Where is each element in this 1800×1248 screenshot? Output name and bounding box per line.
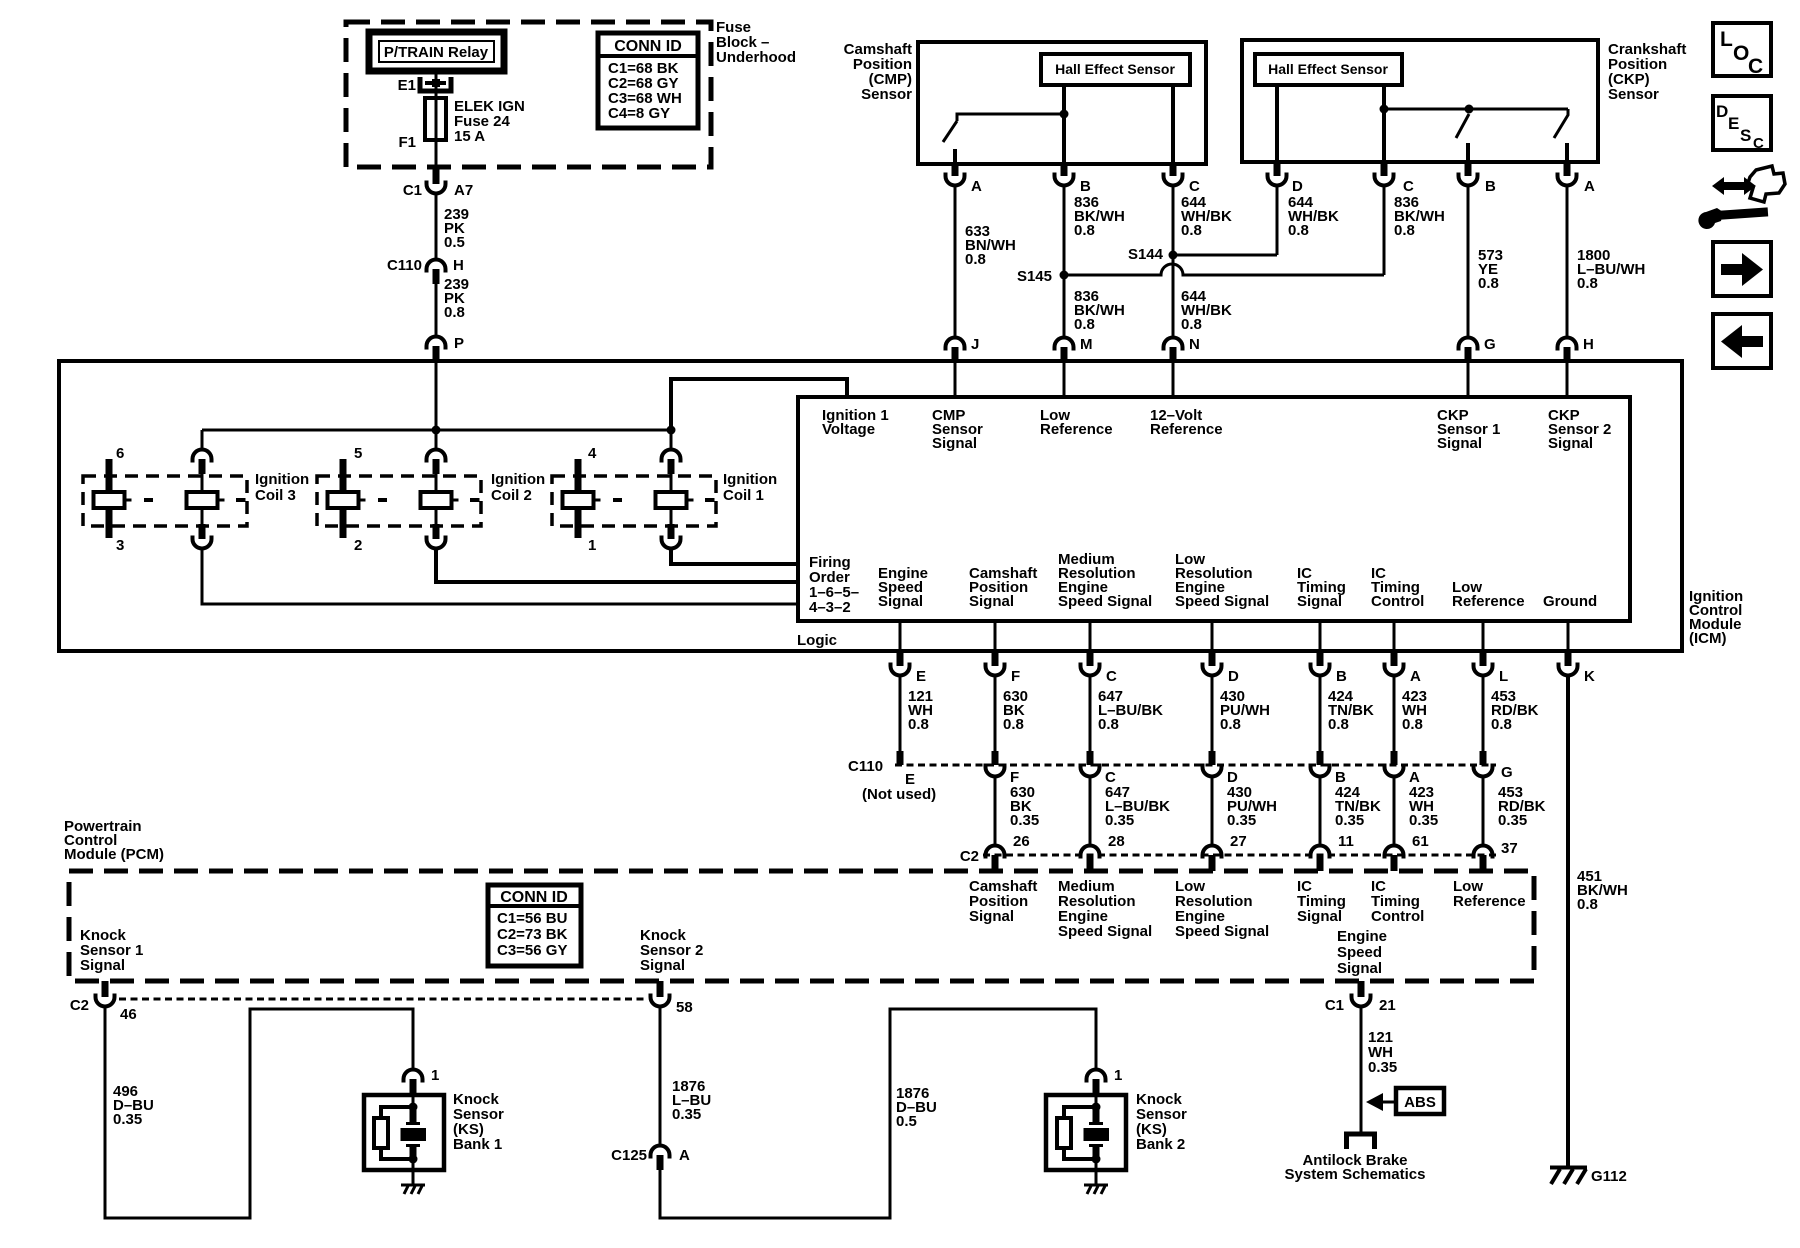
svg-text:G112: G112 [1591,1168,1627,1185]
svg-text:0.8: 0.8 [965,251,986,268]
off-page bracket [1347,1134,1375,1149]
antilock brake label [1285,1152,1426,1183]
ICM pin M [1055,336,1093,361]
svg-text:Speed Signal: Speed Signal [1175,923,1269,940]
svg-text:Coil 3: Coil 3 [255,487,296,504]
ICM pin F [986,651,1021,685]
svg-text:Voltage: Voltage [822,421,875,438]
C110 pin D [1203,751,1239,786]
ICM pin B [1311,651,1348,685]
svg-text:C2: C2 [70,997,89,1014]
svg-text:A: A [679,1147,690,1164]
svg-text:28: 28 [1108,833,1125,850]
wire 836 BK/WH 0.8 upper [1064,187,1125,275]
CKP pin D [1268,162,1304,195]
svg-text:E: E [916,668,926,685]
knock sensor KS bank 2 [1046,1095,1126,1184]
svg-text:Signal: Signal [80,957,125,974]
ICM pin G [1459,336,1496,361]
CMP pin A [946,164,983,195]
svg-text:F: F [1011,668,1020,685]
wire 644 WH/BK 0.8 lower [1173,255,1232,336]
svg-text:Bank 2: Bank 2 [1136,1136,1185,1153]
svg-text:A: A [1410,668,1421,685]
wire IC timing signal to pin B [1319,621,1322,651]
DESC icon box [1713,96,1771,152]
svg-text:0.5: 0.5 [896,1113,917,1130]
svg-text:0.8: 0.8 [1003,716,1024,733]
wire hall to pin B inside CMP [1062,85,1066,164]
svg-text:Reference: Reference [1150,421,1223,438]
svg-text:46: 46 [120,1006,137,1023]
internal bus CKP [1384,108,1568,111]
CMP sensor label [844,41,913,103]
svg-text:4: 4 [588,445,597,462]
connector C2 dashed line [960,848,1497,865]
ICM label [1689,588,1743,647]
svg-text:A: A [1584,178,1595,195]
svg-text:27: 27 [1230,833,1247,850]
C110 stub E [897,751,904,765]
ignition coil 3 [83,445,309,554]
wire 424 TN/BK 0.35 [1320,778,1381,850]
svg-text:C2: C2 [960,848,979,865]
svg-text:6: 6 [116,445,124,462]
ICM pin K [1559,651,1596,685]
svg-text:Hall Effect Sensor: Hall Effect Sensor [1055,61,1175,77]
wire to switch CMP [957,114,1064,121]
back arrow icon box [1713,314,1771,368]
svg-text:Signal: Signal [878,593,923,610]
svg-text:C4=8 GY: C4=8 GY [608,105,670,122]
svg-text:Module (PCM): Module (PCM) [64,846,164,863]
wire P to bus [435,361,438,448]
svg-text:Ignition: Ignition [723,471,777,488]
svg-text:Signal: Signal [1548,435,1593,452]
connector C2 pin 58 [651,981,693,1016]
svg-text:D: D [1292,178,1303,195]
wire 496 D-BU 0.35 [105,1008,413,1218]
svg-text:2: 2 [354,537,362,554]
svg-text:0.8: 0.8 [1402,716,1423,733]
knock sensor 1 label [453,1091,504,1153]
svg-text:C1=56 BU: C1=56 BU [497,910,567,927]
svg-text:0.8: 0.8 [1577,896,1598,913]
fuse holder clip [420,77,451,91]
ABS reference arrow [1366,1093,1396,1111]
svg-text:0.35: 0.35 [1335,812,1364,829]
wire 573 YE 0.8 [1468,187,1503,336]
svg-text:B: B [1336,668,1347,685]
ground knock sensor 1 [401,1184,425,1194]
svg-text:0.35: 0.35 [672,1106,701,1123]
wire 1800 L-BU/WH 0.8 [1567,187,1645,336]
wire relay to fuse [435,71,438,98]
svg-text:0.8: 0.8 [1328,716,1349,733]
svg-text:Sensor: Sensor [1608,86,1659,103]
svg-text:B: B [1485,178,1496,195]
svg-text:Signal: Signal [969,908,1014,925]
svg-text:O: O [1733,42,1749,65]
logic box [797,397,1630,649]
connector C110 dashed line [848,758,1496,803]
svg-text:N: N [1189,336,1200,353]
svg-text:58: 58 [676,999,693,1016]
wire 453 RD/BK 0.35 [1483,778,1546,857]
svg-text:0.8: 0.8 [1098,716,1119,733]
svg-text:K: K [1584,668,1595,685]
wire hall to pin C inside CKP [1382,85,1386,162]
svg-text:0.8: 0.8 [1074,222,1095,239]
svg-text:0.8: 0.8 [1394,222,1415,239]
connector C1 pin A7 [403,166,473,199]
wire CMP signal into logic [954,361,957,397]
svg-text:0.8: 0.8 [908,716,929,733]
svg-text:0.8: 0.8 [1074,316,1095,333]
wire ground to pin K [1567,621,1570,651]
C2 dashed link 46 to 58 [119,998,646,1001]
svg-text:Control: Control [1371,908,1424,925]
wire 644 WH/BK 0.8 CKP D [1277,187,1339,255]
hall effect sensor box (CMP) [1041,54,1190,85]
svg-text:Signal: Signal [969,593,1014,610]
wire 1876 L-BU 0.35 [660,1008,711,1144]
svg-text:0.8: 0.8 [1181,222,1202,239]
wire 12-volt reference into logic [1172,361,1175,397]
svg-text:F1: F1 [398,134,416,151]
svg-text:C: C [1106,668,1117,685]
wire 424 TN/BK 0.8 [1320,677,1374,751]
svg-text:E1: E1 [398,77,416,94]
svg-text:0.8: 0.8 [444,304,465,321]
wire bus to coil1 [670,430,673,448]
ground knock sensor 2 [1084,1184,1108,1194]
switch blade CKP 1 [1456,114,1469,162]
svg-text:Hall Effect Sensor: Hall Effect Sensor [1268,61,1388,77]
wire coil2 to logic [436,550,798,582]
wire hall to pin C inside CMP [1171,85,1175,164]
wire S145 to CKP pin C with hop [1064,264,1384,275]
CONN ID table (fuse block) [598,33,698,128]
PCM pin labels top [969,878,1526,940]
wire S144 to CKP pin D [1173,254,1277,257]
wire coil1 to logic [671,550,798,564]
svg-text:H: H [1583,336,1594,353]
CKP pin A [1558,162,1596,195]
hall effect sensor box (CKP) [1255,54,1402,85]
wire bus to coil3 [201,430,204,448]
wire riser to Ignition 1 Voltage [671,379,847,430]
svg-text:C: C [1403,178,1414,195]
ground G112 [1550,1168,1627,1186]
svg-text:Bank 1: Bank 1 [453,1136,502,1153]
wire coil3 to logic [202,550,798,604]
svg-text:0.8: 0.8 [1220,716,1241,733]
svg-text:0.35: 0.35 [1227,812,1256,829]
wire 423 WH 0.8 [1394,677,1427,751]
svg-text:0.35: 0.35 [1368,1059,1397,1076]
node junction CMP [1060,110,1069,119]
CKP sensor label [1608,41,1686,103]
svg-text:1: 1 [1114,1067,1122,1084]
wire hall to pin D inside CKP [1275,85,1279,162]
svg-text:0.8: 0.8 [1181,316,1202,333]
svg-text:0.8: 0.8 [1478,275,1499,292]
C2 pin 27 [1203,846,1222,872]
svg-text:Engine: Engine [1337,928,1387,945]
wire 633 BN/WH 0.8 [955,187,1016,336]
knock sensor KS bank 1 [364,1095,444,1184]
wire engine speed signal to pin E [899,621,902,651]
svg-text:Signal: Signal [1337,960,1382,977]
svg-text:CONN ID: CONN ID [500,889,568,906]
C2 pin 28 [1081,846,1100,872]
forward arrow icon box [1713,242,1771,296]
C2 pin 61 [1385,846,1404,872]
splice S144 [1128,246,1178,263]
ABS box [1396,1088,1444,1114]
svg-text:C125: C125 [611,1147,647,1164]
PCM dashed box [69,871,1534,981]
svg-text:D: D [1716,102,1728,121]
fuse F1 ELEK IGN Fuse 24 15A [398,77,525,166]
svg-text:J: J [971,336,979,353]
wire 630 BK 0.8 [995,677,1028,751]
svg-text:(ICM): (ICM) [1689,630,1727,647]
wiring repair icon (arrows and wrench) [1698,166,1785,229]
fuse block label [716,19,796,66]
wire 630 BK 0.35 [995,778,1039,850]
knock sensor 1 pin 1 [404,1067,440,1095]
svg-text:D: D [1228,668,1239,685]
svg-text:C110: C110 [848,758,883,775]
C110 pin B [1311,751,1347,786]
CMP sensor box [918,42,1206,164]
C110 pin C [1081,751,1117,786]
wire 647 L-BU/BK 0.8 [1090,677,1163,751]
wire 239 PK 0.5 [436,195,469,258]
CKP pin C [1375,162,1415,195]
wire 423 WH 0.35 [1394,778,1438,850]
fuse block underhood dashed box [346,22,711,167]
svg-text:3: 3 [116,537,124,554]
svg-text:C: C [1189,178,1200,195]
wire 451 BK/WH 0.8 to ground [1568,677,1628,1166]
ICM pin A [1385,651,1422,685]
knock sensor 2 signal label [640,927,703,974]
svg-text:Signal: Signal [1297,593,1342,610]
ICM pin J [946,336,980,361]
svg-text:M: M [1080,336,1093,353]
splice S145 [1017,268,1069,285]
svg-text:A: A [971,178,982,195]
connector C2 pin 46 [70,981,137,1023]
logic box bottom labels [809,551,1597,616]
svg-text:Underhood: Underhood [716,49,796,66]
CKP pin B [1459,162,1497,195]
svg-text:Logic: Logic [797,632,837,649]
svg-text:Reference: Reference [1040,421,1113,438]
svg-text:0.35: 0.35 [113,1111,142,1128]
svg-text:B: B [1080,178,1091,195]
LOC icon box [1713,23,1771,78]
svg-text:0.8: 0.8 [1491,716,1512,733]
connector pin P into ICM [427,335,465,361]
CKP sensor box [1242,40,1598,162]
svg-text:S144: S144 [1128,246,1164,263]
C2 pin 11 [1311,846,1330,872]
svg-text:61: 61 [1412,833,1429,850]
knock sensor 1 signal label [80,927,143,974]
wire 836 BK/WH 0.8 CKP C [1384,187,1445,275]
connector C110 pin H [387,257,464,284]
wire CKP1 into logic [1467,361,1470,397]
wire CKP2 into logic [1566,361,1569,397]
wire 647 L-BU/BK 0.35 [1090,778,1170,850]
svg-text:Coil 1: Coil 1 [723,487,764,504]
wire 836 BK/WH 0.8 lower [1064,275,1125,336]
switch blade CKP 2 [1554,109,1568,162]
CMP pin B [1055,164,1092,195]
connector C1 pin 21 [1325,981,1396,1014]
ignition voltage bus [202,429,671,432]
wire medium res engine speed to pin C [1089,621,1092,651]
wire low reference to pin L [1482,621,1485,651]
svg-text:0.35: 0.35 [1105,812,1134,829]
svg-text:Ignition: Ignition [491,471,545,488]
svg-text:Speed Signal: Speed Signal [1058,923,1152,940]
svg-text:S: S [1740,126,1751,145]
svg-text:C1: C1 [1325,997,1344,1014]
svg-text:0.35: 0.35 [1409,812,1438,829]
svg-text:C3=56 GY: C3=56 GY [497,942,567,959]
node bus coil1 junction [667,426,676,435]
engine speed signal label [1337,928,1387,977]
ICM pin L [1474,651,1509,685]
wire 121 WH 0.35 [1361,1008,1397,1132]
ICM pin N [1164,336,1200,361]
wire low reference into logic [1063,361,1066,397]
svg-text:Ignition: Ignition [255,471,309,488]
svg-text:Signal: Signal [1297,908,1342,925]
svg-text:Signal: Signal [932,435,977,452]
wire 453 RD/BK 0.8 [1483,677,1539,751]
svg-text:Ground: Ground [1543,593,1597,610]
svg-text:P: P [454,335,464,352]
wire 430 PU/WH 0.35 [1212,778,1277,850]
svg-text:L: L [1499,668,1508,685]
svg-text:Reference: Reference [1452,593,1525,610]
svg-text:21: 21 [1379,997,1396,1014]
svg-text:H: H [453,257,464,274]
svg-text:Speed Signal: Speed Signal [1175,593,1269,610]
svg-text:G: G [1501,764,1513,781]
svg-text:G: G [1484,336,1496,353]
connector C125 pin A [611,1146,690,1171]
P/TRAIN Relay label box [369,32,504,71]
node junction CKP right [1465,105,1474,114]
wire camshaft position signal to pin F [994,621,997,651]
svg-text:C: C [1753,135,1764,152]
ignition coil 1 [552,445,777,554]
svg-text:Signal: Signal [1437,435,1482,452]
wire IC timing control to pin A [1393,621,1396,651]
svg-text:0.8: 0.8 [1577,275,1598,292]
C110 pin A [1385,751,1421,786]
knock sensor 2 label [1136,1091,1187,1153]
svg-text:C1: C1 [403,182,422,199]
ICM pin H [1558,336,1594,361]
svg-text:(Not used): (Not used) [862,786,936,803]
svg-text:A7: A7 [454,182,473,199]
svg-text:Speed: Speed [1337,944,1382,961]
wire 430 PU/WH 0.8 [1212,677,1270,751]
ICM outer box [59,361,1682,651]
svg-text:4–3–2: 4–3–2 [809,599,851,616]
svg-text:C110: C110 [387,257,422,274]
svg-text:5: 5 [354,445,362,462]
C110 pin G [1474,751,1513,781]
wire 239 PK 0.8 [436,276,469,335]
ICM pin D [1203,651,1240,685]
svg-text:1: 1 [431,1067,439,1084]
svg-text:0.8: 0.8 [1288,222,1309,239]
C110 pin F [986,751,1020,786]
svg-text:Control: Control [1371,593,1424,610]
svg-text:Speed Signal: Speed Signal [1058,593,1152,610]
svg-text:0.35: 0.35 [1498,812,1527,829]
svg-text:ABS: ABS [1404,1094,1436,1111]
PCM label [64,818,164,863]
switch blade CMP [943,121,957,164]
svg-text:P/TRAIN Relay: P/TRAIN Relay [384,44,489,61]
knock sensor 2 pin 1 [1087,1067,1123,1095]
svg-text:26: 26 [1013,833,1030,850]
logic box top labels [822,407,1611,452]
ignition coil 2 [317,445,545,554]
svg-text:1: 1 [588,537,596,554]
C2 pin 37 [1474,846,1493,872]
svg-text:CONN ID: CONN ID [614,38,682,55]
svg-text:15 A: 15 A [454,128,485,145]
svg-text:0.5: 0.5 [444,234,465,251]
svg-text:System Schematics: System Schematics [1285,1166,1426,1183]
svg-text:E: E [1728,114,1739,133]
svg-text:C: C [1748,55,1763,78]
svg-text:S145: S145 [1017,268,1052,285]
svg-text:C2=73 BK: C2=73 BK [497,926,568,943]
svg-text:Sensor: Sensor [861,86,912,103]
CMP pin C [1164,164,1201,195]
svg-text:L: L [1720,28,1733,51]
CONN ID table (PCM) [488,885,581,966]
node junction CKP left [1380,105,1389,114]
ICM pin C [1081,651,1118,685]
svg-text:Signal: Signal [640,957,685,974]
wire low res engine speed to pin D [1211,621,1214,651]
node bus P junction [432,426,441,435]
C2 pin 26 [986,846,1005,872]
wire 1876 D-BU 0.5 [660,1009,1096,1218]
svg-text:Coil 2: Coil 2 [491,487,532,504]
svg-text:Reference: Reference [1453,893,1526,910]
wire 121 WH 0.8 [900,677,933,751]
svg-text:11: 11 [1338,833,1354,850]
svg-text:37: 37 [1501,840,1518,857]
svg-text:0.35: 0.35 [1010,812,1039,829]
ICM pin E [891,651,927,685]
wire 644 WH/BK 0.8 upper [1173,187,1232,255]
